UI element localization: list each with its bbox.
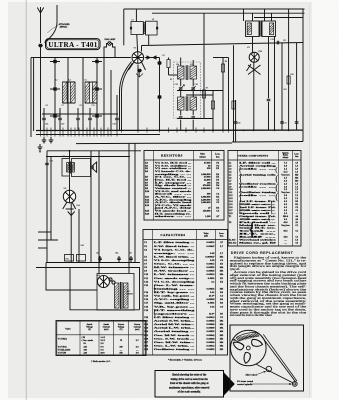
coil L4 (71, 82, 76, 103)
aerial coupling curve (45, 5, 58, 43)
svg-text:{: { (153, 283, 157, 292)
wire tuner v111 (110, 70, 112, 131)
svg-text:C45: C45 (129, 253, 132, 255)
trimmer C19 (179, 87, 183, 89)
wire tuner v55 (54, 58, 56, 132)
svg-text:DIAL LAMP: DIAL LAMP (105, 38, 117, 41)
drum cutout right (252, 339, 263, 346)
wire T1 primary down (69, 151, 71, 159)
valve V1 TH41 triode-hexode (132, 52, 144, 64)
svg-text:(ohms): (ohms) (283, 156, 289, 159)
svg-text:coils ... ...: coils ... ... (239, 186, 277, 188)
switch S10 (157, 95, 161, 98)
wire v268 (268, 37, 270, 56)
idler wheel (266, 366, 271, 371)
osc transformer winding (144, 23, 146, 34)
svg-text:C20: C20 (195, 84, 198, 86)
IFT1 secondary winding (190, 66, 197, 79)
resistor R15 box (65, 255, 74, 262)
svg-text:OTHER COMPONENTS: OTHER COMPONENTS (238, 155, 269, 158)
svg-text:0-0001: 0-0001 (208, 277, 216, 280)
drum wheel (231, 330, 267, 366)
svg-text:Oscillator tuning ...: Oscillator tuning ... (154, 348, 195, 351)
svg-text:Pri. total ...: Pri. total ... (239, 222, 277, 224)
svg-text:0-00005: 0-00005 (207, 298, 216, 301)
svg-text:Valve: Valve (65, 329, 70, 331)
svg-text:(: ( (275, 191, 278, 202)
wire lower top y156 (46, 156, 130, 158)
drum spring hatching (236, 333, 259, 342)
svg-text:Aerial L.W. trim...: Aerial L.W. trim... (154, 327, 195, 330)
wire IFT1 connections (180, 60, 182, 66)
coil L6 (93, 82, 98, 103)
svg-text:R7: R7 (206, 88, 208, 90)
wire AGC line y45 (142, 43, 304, 46)
wire aerial to chassis rail (40, 47, 42, 131)
wire y118 link (177, 118, 213, 120)
wire v204 upper (203, 13, 205, 45)
cord upper run (261, 336, 296, 383)
svg-text:Loca-: Loca- (215, 154, 220, 156)
capacitor C43 (98, 257, 102, 259)
svg-text:Value: Value (200, 154, 205, 156)
wire HT rail right (232, 141, 303, 144)
wire v138 V1 down (137, 65, 139, 131)
svg-text:Aerial S.W. trim...: Aerial S.W. trim... (154, 320, 195, 323)
drum cutout bottom (244, 352, 250, 363)
wire v129 long (128, 143, 130, 262)
wire osc trans feed (135, 9, 137, 22)
svg-text:{: { (248, 219, 257, 240)
svg-text:0-00055: 0-00055 (207, 266, 216, 269)
svg-text:L.W. fixed trim. ...: L.W. fixed trim. ... (154, 255, 195, 258)
output transformer T1 (62, 159, 70, 177)
wire mains rail (36, 267, 140, 269)
svg-text:L8: L8 (132, 19, 134, 21)
svg-text:C11: C11 (92, 105, 95, 107)
svg-text:V1 S.G. decoupling: V1 S.G. decoupling (154, 259, 196, 262)
svg-text:0-00047: 0-00047 (207, 245, 216, 248)
switch S9 (157, 61, 161, 64)
svg-text:Very low: Very low (281, 192, 290, 194)
capacitor C27 mark (267, 98, 271, 100)
wire V2 cathode down (253, 62, 255, 129)
svg-text:{: { (154, 177, 157, 184)
mains transformer T2 secondary (124, 283, 129, 308)
switch S4 (53, 87, 57, 90)
svg-text:(mA): (mA) (135, 328, 140, 331)
capacitor C44 (117, 257, 121, 259)
trimmer C20 (191, 87, 195, 89)
capacitor C21 symbol (276, 41, 278, 45)
wire v233 (233, 45, 235, 141)
capacitor C17 (115, 117, 119, 119)
IFT1 lower core (185, 96, 187, 111)
svg-text:1,200: 1,200 (205, 215, 211, 218)
trimmer C23 (191, 116, 195, 118)
svg-text:R8: R8 (225, 61, 227, 63)
wire v135 long (134, 143, 136, 262)
wire AVC bus (42, 113, 118, 115)
svg-text:C7: C7 (62, 105, 64, 107)
svg-text:0-00012: 0-00012 (207, 344, 216, 347)
IFT1 lower secondary (190, 97, 197, 110)
rectifier valve V4 (98, 276, 110, 288)
wire v303 right edge (302, 9, 304, 142)
svg-text:C9: C9 (80, 105, 82, 107)
capacitor C10 trimmer (58, 117, 62, 119)
svg-text:Osc. anode coup....: Osc. anode coup.... (154, 277, 195, 280)
svg-text:{: { (153, 308, 157, 317)
nameplate ULTRA - T401 (46, 39, 101, 50)
svg-text:Very low: Very low (281, 174, 290, 176)
svg-text:Sketch showing the route o: Sketch showing the route of the (172, 374, 207, 377)
svg-text:C31: C31 (284, 123, 287, 125)
wire top rail y17 right (254, 17, 303, 19)
svg-text:H.T. smoothing: H.T. smoothing (154, 309, 197, 312)
osc transformer can 1 (131, 22, 143, 35)
wire stub row3 (38, 247, 47, 249)
svg-text:2-2: 2-2 (136, 347, 139, 349)
wire aerial lead (40, 13, 42, 43)
svg-text:Sec.: Sec. (239, 204, 280, 206)
svg-text:Osc. C.G. ... ...: Osc. C.G. ... ... (154, 263, 196, 266)
wire osc trans to V1 top cap (136, 35, 139, 52)
svg-text:* Electrolytic. † Variable.: * Electrolytic. † Variable. ‡ Preset. (168, 358, 203, 361)
svg-text:L2: L2 (56, 80, 58, 82)
svg-text:DRIVE CORD REPLACEMENT: DRIVE CORD REPLACEMENT (231, 251, 294, 255)
svg-text:Value: Value (203, 233, 208, 235)
wire tuner v83 (82, 58, 84, 132)
svg-text:R1: R1 (163, 55, 165, 57)
svg-text:R10: R10 (290, 74, 293, 76)
table RESISTORS (144, 151, 224, 221)
wire top-left corner down (123, 9, 125, 45)
rail junction ticks (41, 128, 229, 137)
wire HT rail lower (76, 142, 232, 145)
svg-text:580-0: 580-0 (283, 216, 289, 218)
svg-text:0-00018: 0-00018 (207, 316, 216, 319)
svg-text:Osc. L.W. trim. ...: Osc. L.W. trim. ... (154, 344, 195, 347)
page fold line left (25, 0, 27, 400)
svg-text:Oscillator tuning: Oscillator tuning (239, 191, 277, 194)
ground symbol left 1 (43, 137, 45, 140)
resistor R10 box (287, 76, 290, 84)
svg-text:0-00018: 0-00018 (207, 273, 216, 276)
svg-text:C19: C19 (175, 84, 178, 86)
wire psu links (98, 263, 100, 274)
svg-text:(V): (V) (120, 328, 123, 331)
wire stub row2 (38, 239, 58, 241)
resistor R12 box (232, 101, 235, 109)
wire V1 grid curve 2 (120, 62, 132, 131)
svg-text:Mains sw., gd. R9: Mains sw., gd. R9 (239, 242, 277, 245)
control spindle (292, 382, 297, 387)
svg-text:VP41: VP41 (258, 51, 262, 53)
spring anchor arrow (234, 339, 239, 342)
capacitor C13 padder (76, 117, 80, 119)
wire tuner v97 (96, 58, 98, 132)
wire v282 (281, 42, 283, 129)
svg-text:front of the chassis with the: front of the chassis with the gang at (170, 382, 209, 385)
svg-text:{: { (154, 205, 157, 212)
wire v243 from rail (243, 9, 245, 21)
wire v296 (296, 43, 298, 130)
svg-text:S.W. tracker ...: S.W. tracker ... (154, 270, 196, 273)
table OTHER COMPONENTS (228, 151, 301, 247)
svg-text:(ohms): (ohms) (199, 155, 205, 158)
cord lower run (256, 364, 293, 383)
svg-text:0-00018: 0-00018 (207, 241, 216, 244)
table CAPACITORS (143, 230, 228, 356)
trimmer C22 (179, 116, 183, 118)
svg-text:C30: C30 (113, 124, 116, 126)
svg-text:C24: C24 (237, 123, 240, 125)
svg-text:Sec.: Sec. (239, 219, 280, 221)
svg-text:total ...: total ... (239, 231, 278, 233)
wire chassis rail main (36, 129, 303, 131)
svg-text:R2: R2 (170, 79, 172, 81)
page edge right (309, 3, 311, 397)
mains transformer T2 winding (115, 283, 120, 308)
sketch note box (155, 371, 224, 398)
svg-text:(μF): (μF) (204, 235, 208, 238)
capacitor C45 (129, 257, 133, 259)
wire tuner v104 (103, 58, 105, 132)
IFT2 core (259, 21, 261, 37)
svg-text:Osc. L.W. trans-: Osc. L.W. trans- (154, 284, 195, 287)
drive cord diagram frame (230, 325, 304, 391)
svg-text:0-00052: 0-00052 (207, 348, 216, 351)
svg-text:Aerial coupling: Aerial coupling (239, 165, 278, 168)
svg-text:RESISTORS: RESISTORS (161, 153, 183, 157)
coil L3 aerial tuning (63, 82, 68, 103)
svg-text:V.R. by-pass ...: V.R. by-pass ... (154, 305, 196, 308)
svg-text:Aerial M.W. trim...: Aerial M.W. trim... (154, 323, 195, 326)
wire v228 right (228, 58, 230, 130)
resistor R9 box (211, 101, 214, 109)
IFT2 secondary can (262, 21, 276, 37)
resistor R7 box (202, 90, 205, 98)
svg-text:Sig. anti-filter ...: Sig. anti-filter ... (154, 302, 195, 305)
drum cutout left (233, 342, 244, 350)
spring hatch borders (236, 332, 259, 341)
wire grid rail y57 (31, 57, 131, 59)
svg-text:of the scale assembly.: of the scale assembly. (178, 391, 201, 394)
wire psu left loop (46, 263, 97, 291)
svg-text:{: { (270, 206, 273, 214)
wire AVC feed y150 (47, 150, 141, 152)
wire y90 link (177, 90, 223, 92)
svg-text:Sec.: Sec. (239, 210, 280, 212)
coil L5 oscillator tuning (85, 82, 90, 103)
svg-text:† Both anodes, A.C.: † Both anodes, A.C. (91, 360, 111, 363)
osc transformer can 2 (146, 21, 158, 35)
svg-text:CAPACITORS: CAPACITORS (160, 233, 185, 237)
svg-text:L4: L4 (69, 80, 71, 82)
svg-text:coup. ... ...: coup. ... ... (154, 252, 196, 255)
wire psu right vertical (139, 268, 141, 310)
PSU enclosure box (97, 274, 134, 311)
svg-text:V1 TH41: V1 TH41 (58, 337, 68, 340)
svg-text:C21: C21 (283, 40, 286, 42)
svg-text:coils ... ...: coils ... ... (239, 169, 277, 171)
svg-text:0-00042: 0-00042 (207, 334, 216, 337)
svg-text:Osc. M.W. track ...: Osc. M.W. track ... (154, 334, 195, 337)
wire v71 below V3 (70, 203, 72, 263)
svg-text:sistor ... ...: sistor ... ... (155, 215, 193, 218)
svg-text:half ...: half ... (239, 237, 278, 239)
svg-text:H.T. by-pass ...: H.T. by-pass ... (154, 291, 196, 294)
svg-text:(V): (V) (88, 328, 91, 331)
svg-text:control spindle: control spindle (237, 383, 253, 386)
svg-text:L9: L9 (152, 19, 154, 21)
svg-text:V2 cath. by-pass ...: V2 cath. by-pass ... (154, 295, 195, 298)
wire top rail y9 (124, 8, 305, 10)
svg-text:Waveband switches: Waveband switches (239, 240, 276, 242)
svg-text:Idler wheel: Idler wheel (246, 373, 258, 376)
svg-text:L15: L15 (190, 64, 193, 66)
svg-text:150,000: 150,000 (203, 210, 212, 213)
wire T1 junction dot (69, 150, 71, 152)
switch S7 (95, 114, 99, 117)
wire v252 from rail (252, 13, 254, 21)
svg-text:A.C.: A.C. (127, 290, 131, 293)
svg-text:V4 TUN: V4 TUN (58, 352, 67, 355)
mains transformer T2 core (120, 282, 122, 309)
svg-text:coils ... ...: coils ... ... (239, 195, 277, 197)
resistor R8 box (221, 64, 224, 72)
svg-text:M.W. trimmer ...: M.W. trimmer ... (154, 266, 195, 269)
svg-text:L.F. filter tuning ...: L.F. filter tuning ... (154, 241, 195, 244)
wire v223 (222, 63, 224, 131)
svg-text:1,000,000: 1,000,000 (201, 201, 211, 204)
svg-text:Anode: Anode (103, 323, 109, 326)
wire stub row1 (38, 231, 51, 233)
table valve voltages (56, 321, 146, 356)
switch S8 below V1 (137, 69, 141, 72)
switch S1 aerial (38, 44, 42, 47)
svg-text:trans. H.T. sec.: trans. H.T. sec. (239, 228, 277, 230)
svg-text:C26: C26 (271, 39, 274, 41)
switch S5 (95, 87, 99, 90)
svg-text:Output trans. Pri.: Output trans. Pri. (239, 216, 276, 218)
svg-text:Mains Heat. sec.: Mains Heat. sec. (239, 225, 277, 227)
wire v264 from rail (264, 9, 266, 21)
svg-text:Osc. S.W. track ...: Osc. S.W. track ... (154, 337, 195, 340)
svg-text:tuning ... ...: tuning ... ... (154, 287, 196, 290)
svg-text:0-00015: 0-00015 (207, 263, 216, 266)
svg-text:tuning drive cord as seen from: tuning drive cord as seen from the (171, 378, 209, 381)
svg-text:maximum capacitance, after rem: maximum capacitance, after removal (169, 386, 210, 389)
wire V1 grid curve (122, 63, 133, 131)
svg-text:Osc. M.W. trim...: Osc. M.W. trim... (154, 341, 195, 344)
svg-text:Loca-: Loca- (219, 233, 224, 235)
wire enclosure bottom loop (70, 268, 140, 310)
svg-text:1,000,000: 1,000,000 (201, 187, 211, 190)
ground symbol left 2 (50, 137, 52, 140)
drum hub (246, 346, 250, 350)
resistor R16 box (77, 255, 86, 262)
svg-text:{: { (238, 206, 241, 214)
wire v159 mixer anode (159, 58, 161, 131)
svg-text:16-0*: 16-0* (209, 312, 215, 315)
svg-text:C16: C16 (61, 124, 64, 126)
IF transformer IFT1 dashed can (174, 62, 201, 118)
svg-text:V1 hept. C.G. de-: V1 hept. C.G. de- (154, 248, 195, 251)
svg-text:MAINS: MAINS (127, 293, 134, 296)
svg-text:S11-S12: S11-S12 (229, 243, 238, 245)
svg-text:Oscillator reaction: Oscillator reaction (239, 183, 277, 185)
svg-text:25-0*: 25-0* (209, 295, 215, 298)
wire v274 (274, 37, 276, 130)
svg-text:0-00052: 0-00052 (207, 330, 216, 333)
svg-text:Voltage: Voltage (86, 325, 93, 328)
svg-text:0-00038: 0-00038 (207, 337, 216, 340)
svg-text:C6: C6 (46, 105, 48, 107)
wire v91 long (90, 151, 92, 263)
svg-text:R15: R15 (66, 259, 69, 261)
svg-text:0-00006: 0-00006 (207, 341, 216, 344)
svg-text:S.W. fixed trim. ...: S.W. fixed trim. ... (154, 245, 195, 248)
loudspeaker (90, 165, 92, 169)
svg-text:C40: C40 (81, 245, 84, 247)
svg-text:L.W. trimmer ...: L.W. trimmer ... (154, 273, 195, 276)
wire v235 lower (235, 100, 237, 142)
svg-text:L14: L14 (176, 64, 179, 66)
svg-text:{: { (238, 165, 242, 174)
wire v213 (212, 91, 214, 131)
wire V1 anode with arrows (145, 56, 160, 59)
svg-text:Voltage: Voltage (118, 325, 125, 328)
capacitor C37 (45, 162, 49, 164)
V3 cathode network (63, 203, 76, 210)
svg-text:0-00002: 0-00002 (207, 320, 216, 323)
ground symbol main (39, 144, 41, 147)
wire v79 (78, 209, 80, 263)
capacitor C15 (88, 117, 92, 119)
wire caps to rails (99, 256, 101, 263)
svg-text:R11: R11 (284, 89, 287, 91)
wire tuner left edge (30, 58, 32, 138)
wire osc trans sec down (148, 35, 150, 45)
svg-text:ULTRA - T401: ULTRA - T401 (48, 41, 98, 49)
pointer arrow to diagram (224, 373, 235, 396)
wire v51 (50, 157, 52, 241)
svg-text:capacitors ...: capacitors ... (154, 312, 196, 315)
wire v47 left (46, 151, 48, 263)
svg-text:0-00004: 0-00004 (207, 323, 216, 326)
svg-text:Aerial tuning coils: Aerial tuning coils (239, 173, 276, 176)
wire chassis rail second (36, 134, 160, 136)
valve V2 VP41 pentode (249, 52, 259, 62)
svg-text:{ Osc. anode: { Osc. anode (82, 340, 94, 342)
IFT1 lower primary (178, 97, 185, 110)
wire tuner v68 (67, 58, 69, 132)
svg-text:I.F. filter tuning ...: I.F. filter tuning ... (154, 316, 195, 319)
svg-text:0-00025: 0-00025 (207, 287, 216, 290)
svg-text:0-00035: 0-00035 (207, 270, 216, 273)
resistor R6 box (167, 60, 170, 68)
valve V3 output pentode (63, 190, 75, 202)
capacitor C33 (295, 121, 299, 123)
wire v99 long (98, 151, 100, 263)
svg-text:S1-S10: S1-S10 (229, 240, 237, 242)
capacitor C31 (280, 121, 284, 123)
svg-text:0-000047: 0-000047 (205, 255, 215, 258)
svg-text:and round the drum to the idle: and round the drum to the idler wheel. (230, 314, 273, 317)
switch S3 (95, 60, 99, 63)
